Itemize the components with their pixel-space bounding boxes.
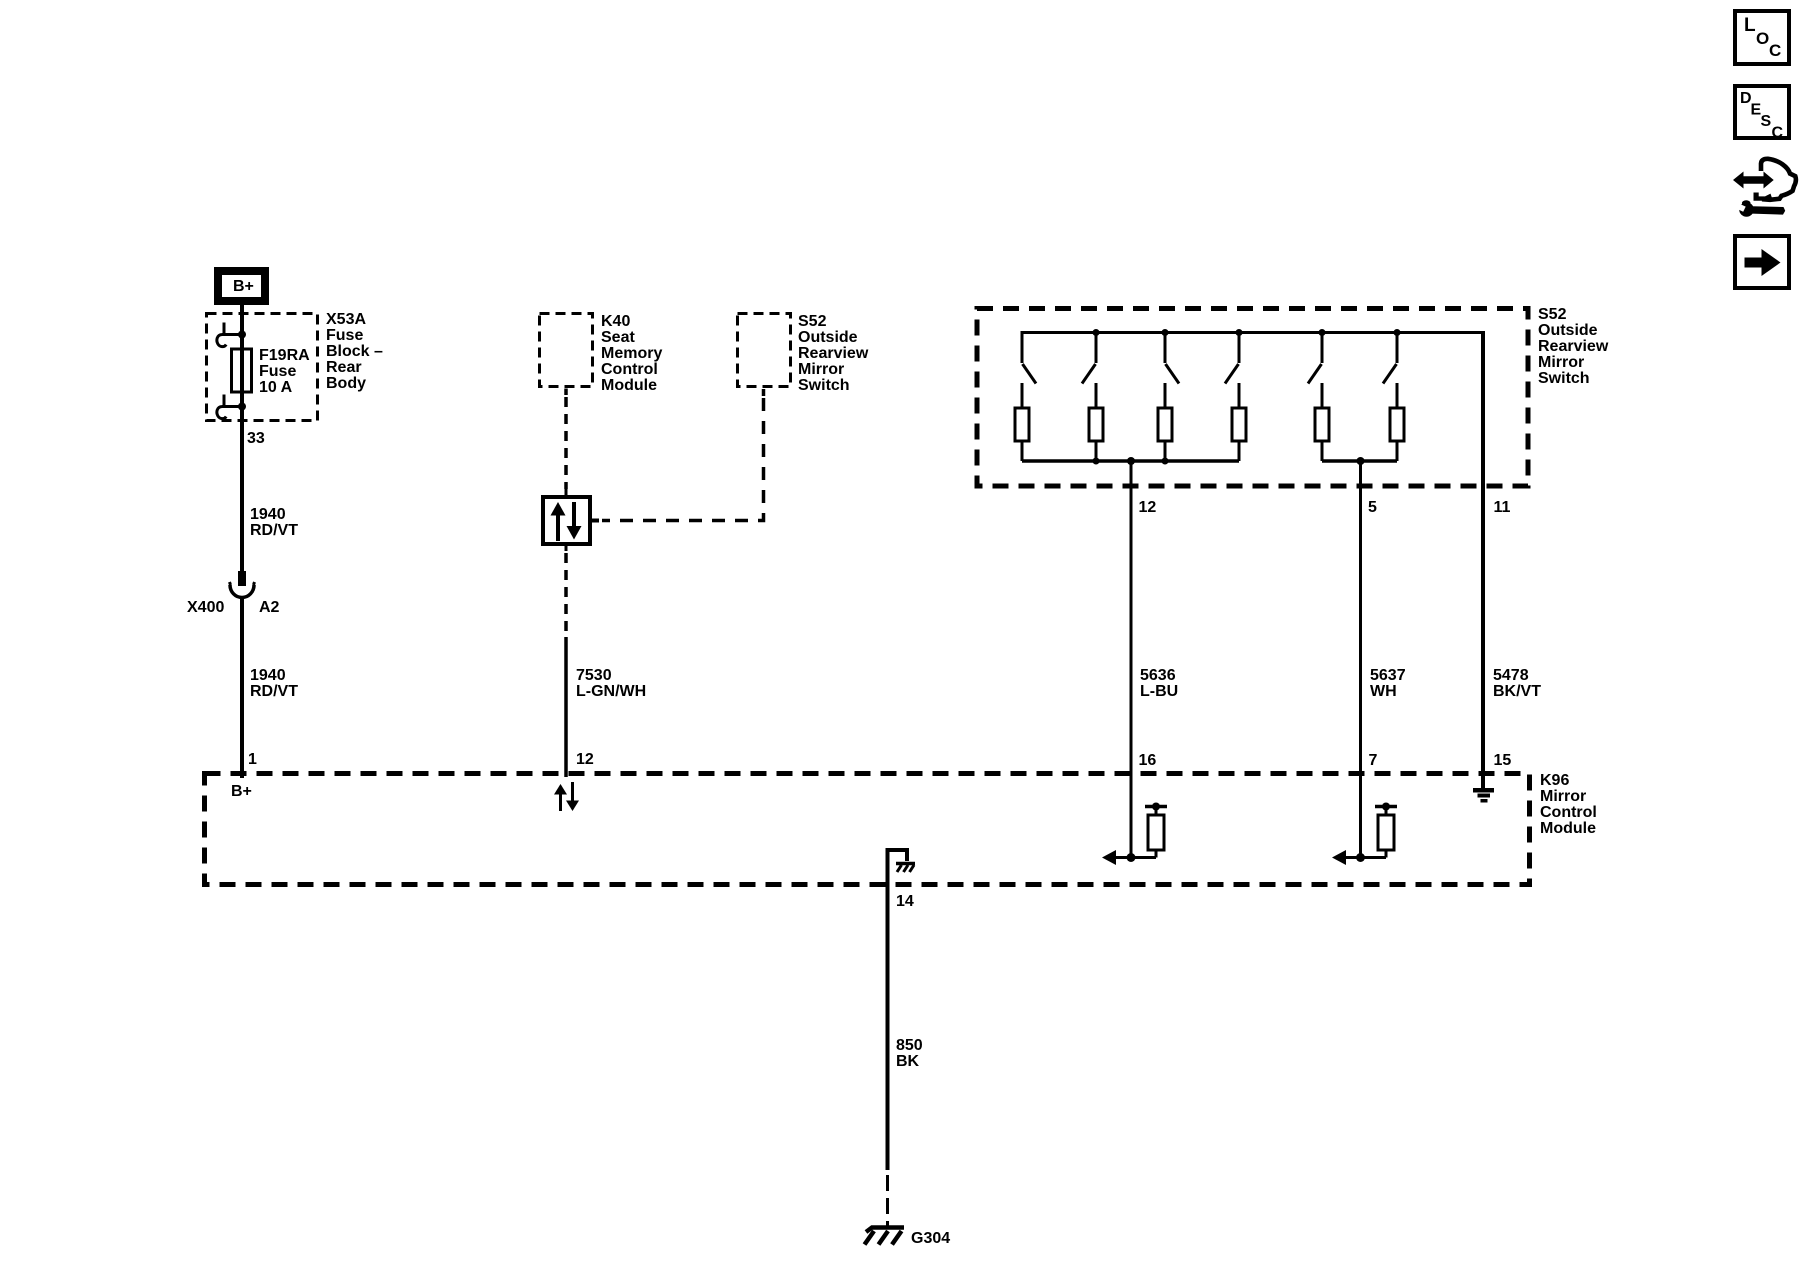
svg-text:7: 7	[1369, 752, 1378, 769]
motor drive left (pin 16): wiper resistor and arrow	[1102, 774, 1167, 865]
pin 14 elbow and internal chassis ground	[886, 850, 915, 872]
fuse clip top	[217, 323, 242, 347]
svg-text:B+: B+	[233, 278, 254, 295]
svg-text:S52OutsideRearviewMirrorSwitch: S52OutsideRearviewMirrorSwitch	[1538, 306, 1609, 387]
node dots on top bus	[1093, 329, 1401, 336]
icon LOC box	[1735, 11, 1789, 64]
power symbol B+	[218, 271, 265, 301]
wire lower bus left	[1022, 459, 1239, 463]
svg-text:33: 33	[247, 430, 265, 447]
svg-text:S: S	[1761, 113, 1772, 130]
switch contact 3 with resistor	[1158, 333, 1179, 462]
fuse clip bottom	[217, 395, 242, 419]
icon wiring navigation (double arrow, hook band, wrench)	[1733, 159, 1796, 217]
svg-text:O: O	[1756, 29, 1769, 48]
motor drive right (pin 7): wiper resistor and arrow	[1332, 774, 1397, 865]
wire S52 pin 5 to K96 pin 7	[1359, 461, 1362, 774]
svg-text:11: 11	[1494, 499, 1511, 516]
wire B+ feed to fuse and X400	[240, 302, 244, 573]
switch contact 4 with resistor	[1225, 333, 1246, 462]
svg-text:5637WH: 5637WH	[1370, 667, 1406, 700]
wire top bus	[1022, 333, 1483, 335]
svg-text:12: 12	[1139, 499, 1157, 516]
svg-text:850BK: 850BK	[896, 1037, 923, 1070]
switch contact 2 with resistor	[1082, 333, 1103, 462]
fuse block X53A dashed box	[207, 314, 318, 421]
wire dashed tail to G304	[886, 1170, 889, 1227]
wire mirror symbol to K96 pin 12	[565, 546, 568, 551]
svg-text:15: 15	[1494, 752, 1512, 769]
switch contact 6 with resistor	[1383, 333, 1404, 462]
svg-text:5: 5	[1368, 499, 1377, 516]
svg-text:5636L-BU: 5636L-BU	[1140, 667, 1178, 700]
wire K40 to mirror symbol (dashed)	[564, 389, 568, 396]
wire S52 pin 12 to K96 pin 16	[1130, 461, 1133, 774]
mirror motor symbol (up/down arrows in box)	[543, 497, 590, 544]
wire X400 to K96 pin 1	[240, 598, 244, 778]
connector X400 pin A2	[230, 571, 255, 598]
svg-text:1940RD/VT: 1940RD/VT	[250, 506, 298, 539]
svg-text:A2: A2	[259, 599, 280, 616]
junction node fuse bottom	[238, 403, 246, 411]
svg-text:C: C	[1769, 41, 1781, 60]
svg-text:C: C	[1772, 125, 1784, 142]
ground G304 symbol	[865, 1228, 905, 1245]
wire S52 pin 11 to K96 pin 15	[1481, 331, 1485, 788]
svg-text:L: L	[1744, 15, 1756, 36]
svg-text:12: 12	[576, 751, 594, 768]
svg-text:7530L-GN/WH: 7530L-GN/WH	[576, 667, 646, 700]
svg-text:S52OutsideRearviewMirrorSwitch: S52OutsideRearviewMirrorSwitch	[798, 313, 869, 394]
svg-text:B+: B+	[231, 783, 252, 800]
icon next-page arrow box	[1735, 236, 1789, 288]
module S52 small dashed box	[738, 314, 791, 387]
switch contact 1 with resistor	[1015, 333, 1036, 462]
svg-text:1: 1	[248, 751, 257, 768]
icon DESC box	[1735, 86, 1789, 142]
wire K96 pin 14 to ground	[886, 848, 890, 1170]
svg-text:X53AFuseBlock –RearBody: X53AFuseBlock –RearBody	[326, 311, 383, 392]
svg-text:16: 16	[1139, 752, 1157, 769]
module K40 Seat Memory Control Module dashed box	[540, 314, 593, 387]
svg-text:5478BK/VT: 5478BK/VT	[1493, 667, 1541, 700]
svg-text:F19RAFuse10 A: F19RAFuse10 A	[259, 347, 310, 396]
svg-text:K40SeatMemoryControlModule: K40SeatMemoryControlModule	[601, 313, 662, 394]
wire mirror symbol to S52 small (dashed)	[592, 519, 599, 523]
svg-text:X400: X400	[187, 599, 224, 616]
mirror select arrows inside K96	[554, 782, 579, 811]
svg-text:K96MirrorControlModule: K96MirrorControlModule	[1540, 772, 1597, 837]
ground symbol at pin 15 inside K96	[1473, 788, 1494, 803]
module K96 Mirror Control Module dashed box	[205, 774, 1530, 885]
junction node fuse top	[238, 331, 246, 339]
svg-text:G304: G304	[911, 1230, 950, 1247]
svg-text:14: 14	[896, 893, 914, 910]
switch S52 Outside Rearview Mirror Switch dashed box	[977, 309, 1528, 487]
svg-text:1940RD/VT: 1940RD/VT	[250, 667, 298, 700]
fuse F19RA 10A	[232, 349, 252, 392]
switch contact 5 with resistor	[1308, 333, 1329, 462]
wire lower bus right	[1322, 459, 1397, 463]
node dot lower bus right	[1357, 457, 1365, 465]
node dots lower bus left	[1093, 457, 1169, 465]
